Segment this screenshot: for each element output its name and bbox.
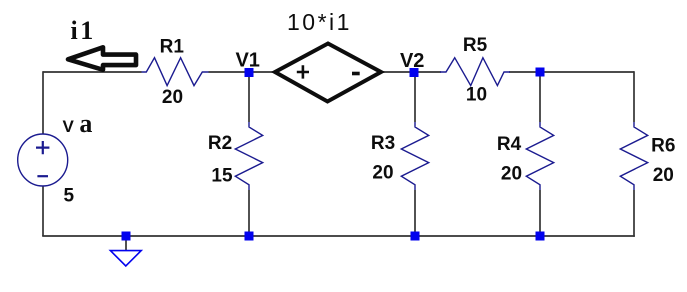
svg-text:R1: R1 [160, 36, 185, 57]
svg-text:V2: V2 [400, 50, 424, 72]
dependent source 10*i1 (diamond) [275, 44, 381, 102]
wire top between R1 and dependent source (node V1) [209, 71, 277, 73]
wire bottom rail [42, 235, 635, 237]
wire R3 column upper [414, 72, 416, 122]
wire top-left horizontal segment [43, 71, 142, 73]
svg-text:i1: i1 [71, 16, 96, 45]
wire R3 column lower [414, 190, 416, 236]
wire R2 column lower [248, 190, 250, 236]
svg-text:10: 10 [466, 85, 487, 106]
svg-text:5: 5 [64, 186, 75, 207]
svg-text:20: 20 [162, 87, 183, 108]
voltage source Va [18, 134, 68, 186]
wire top from R5 to top-right corner [509, 71, 634, 73]
node V2 junction square [410, 68, 419, 77]
wire ground stub [125, 236, 127, 250]
svg-text:R3: R3 [371, 133, 395, 154]
wire R4 column lower [539, 190, 541, 236]
svg-text:Va: Va [63, 109, 93, 138]
svg-text:20: 20 [372, 162, 393, 183]
current arrow i1 [68, 47, 136, 70]
svg-text:V1: V1 [235, 49, 259, 71]
node junction square ground [122, 232, 131, 241]
svg-text:R4: R4 [497, 134, 522, 155]
svg-text:10*i1: 10*i1 [287, 9, 352, 35]
resistor R4 [526, 122, 553, 190]
wire R4 column upper [539, 72, 541, 122]
svg-text:15: 15 [211, 166, 233, 187]
svg-text:20: 20 [653, 165, 674, 186]
node junction square R3 bottom [411, 232, 420, 241]
wire right vertical below R6 [633, 190, 635, 237]
wire right vertical above R6 [633, 71, 635, 122]
resistor R6 [620, 122, 647, 190]
svg-text:20: 20 [501, 163, 522, 184]
svg-text:R6: R6 [651, 136, 675, 157]
node junction square R2 bottom [245, 232, 254, 241]
wire top between dependent source and R5 (node V2) [380, 71, 441, 73]
wire left vertical above source [42, 71, 44, 134]
wire left vertical below source [42, 186, 44, 236]
resistor R5 [440, 58, 510, 86]
node junction square R4 top [536, 68, 545, 77]
node junction square R4 bottom [536, 232, 545, 241]
resistor R1 [142, 58, 209, 86]
wire R2 column upper [248, 72, 250, 122]
svg-text:R5: R5 [463, 35, 488, 56]
node V1 junction square [245, 68, 254, 77]
svg-text:R2: R2 [208, 133, 232, 154]
resistor R3 [401, 122, 428, 190]
resistor R2 [235, 122, 262, 190]
ground [110, 251, 141, 266]
